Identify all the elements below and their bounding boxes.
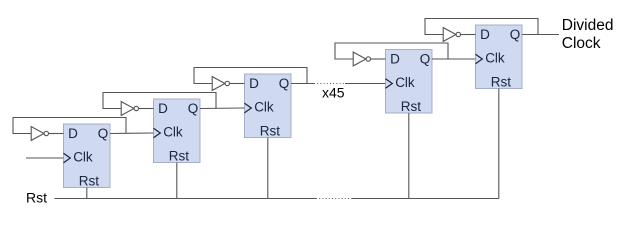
svg-text:D: D xyxy=(480,27,490,42)
svg-text:Q: Q xyxy=(510,27,521,42)
svg-text:Clk: Clk xyxy=(254,100,274,115)
svg-text:Clock: Clock xyxy=(562,35,601,52)
svg-text:Clk: Clk xyxy=(163,125,183,140)
svg-text:Rst: Rst xyxy=(79,173,99,188)
svg-text:Rst: Rst xyxy=(169,148,189,163)
svg-text:Q: Q xyxy=(188,101,199,116)
svg-text:Rst: Rst xyxy=(401,99,421,114)
svg-text:Divided: Divided xyxy=(562,17,614,34)
svg-text:Rst: Rst xyxy=(491,74,511,89)
svg-text:D: D xyxy=(249,76,259,91)
svg-text:Q: Q xyxy=(420,52,431,67)
svg-text:Q: Q xyxy=(279,76,290,91)
svg-text:Clk: Clk xyxy=(395,75,415,90)
svg-text:Rst: Rst xyxy=(26,189,47,205)
svg-text:Rst: Rst xyxy=(260,123,280,138)
svg-text:D: D xyxy=(158,101,168,116)
svg-text:Clk: Clk xyxy=(73,150,93,165)
svg-text:x45: x45 xyxy=(322,85,345,101)
svg-text:D: D xyxy=(68,126,78,141)
svg-text:Clk: Clk xyxy=(485,51,505,66)
svg-text:Q: Q xyxy=(98,126,109,141)
svg-text:D: D xyxy=(390,52,400,67)
